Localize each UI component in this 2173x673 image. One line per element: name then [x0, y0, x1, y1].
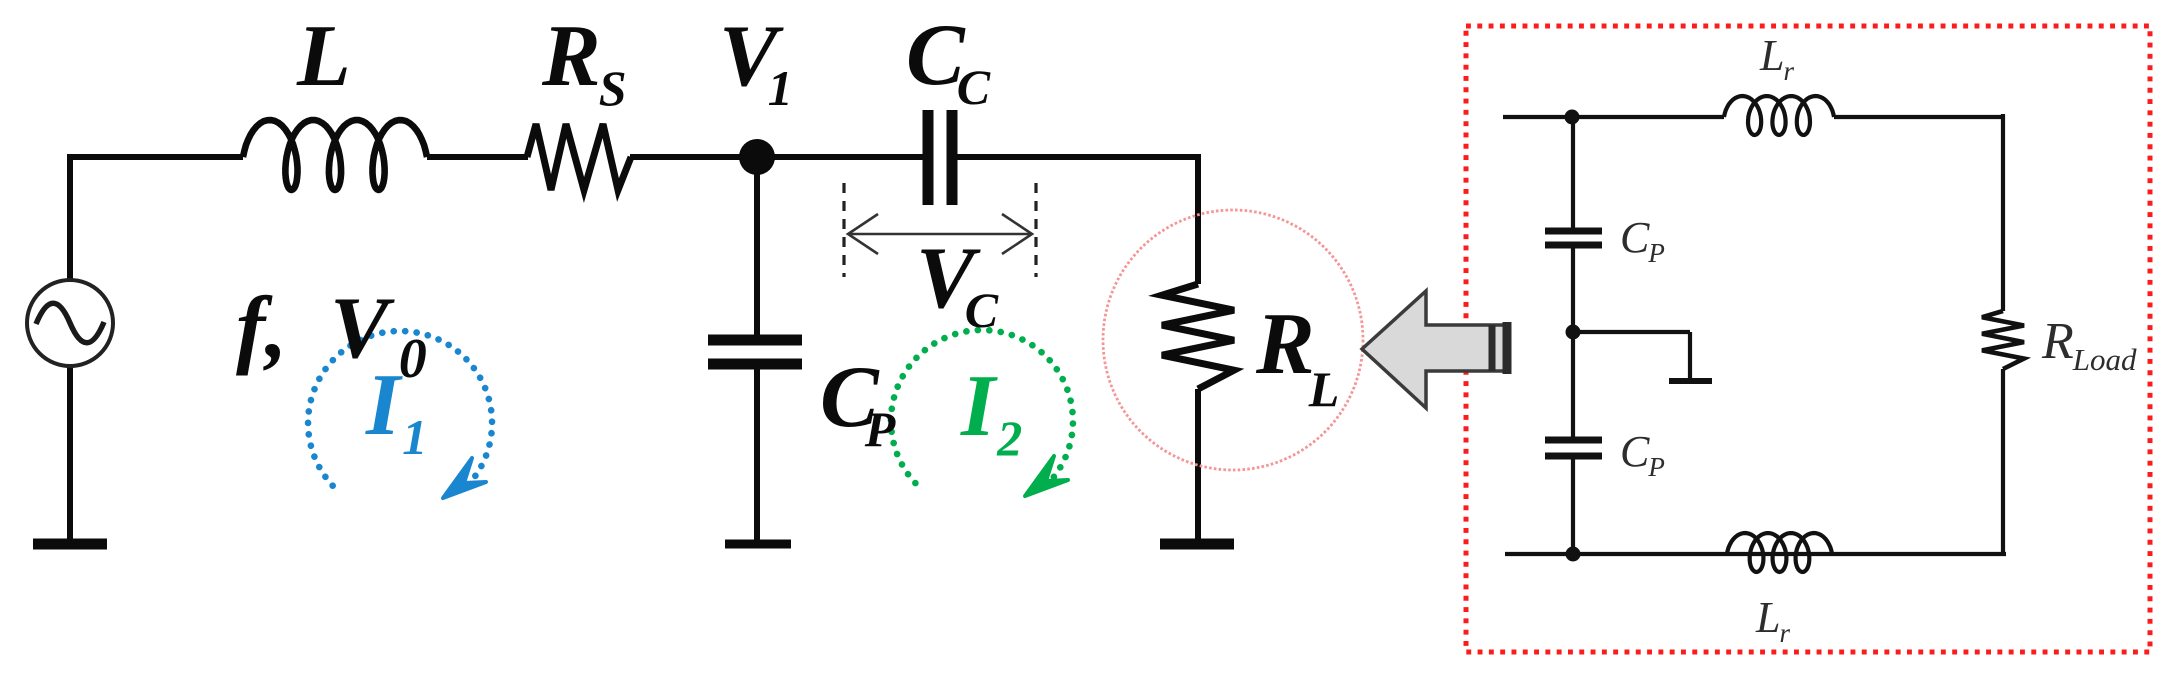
- svg-text:f,: f,: [236, 280, 287, 377]
- svg-text:L: L: [296, 8, 351, 105]
